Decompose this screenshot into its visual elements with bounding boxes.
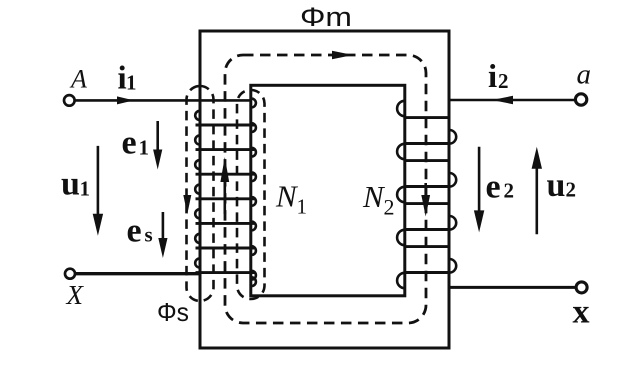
svg-text:2: 2 [384, 195, 395, 220]
svg-text:Φs: Φs [157, 297, 189, 327]
svg-text:N: N [275, 179, 299, 214]
svg-text:Φm: Φm [300, 2, 352, 32]
svg-text:A: A [69, 65, 87, 94]
svg-text:X: X [66, 280, 85, 310]
svg-text:1: 1 [297, 195, 308, 219]
svg-text:e: e [486, 169, 501, 206]
svg-text:2: 2 [498, 69, 509, 93]
svg-text:e: e [122, 125, 137, 162]
svg-text:2: 2 [566, 178, 577, 202]
svg-text:N: N [362, 179, 386, 214]
svg-text:1: 1 [126, 71, 137, 95]
svg-text:u: u [547, 167, 566, 204]
svg-text:a: a [577, 59, 592, 91]
svg-text:i: i [488, 59, 497, 95]
svg-text:1: 1 [80, 176, 91, 200]
svg-text:u: u [61, 166, 80, 203]
svg-text:x: x [573, 294, 590, 331]
svg-text:2: 2 [504, 179, 515, 203]
svg-text:s: s [145, 223, 153, 247]
svg-text:e: e [127, 213, 142, 250]
svg-text:1: 1 [139, 136, 150, 160]
